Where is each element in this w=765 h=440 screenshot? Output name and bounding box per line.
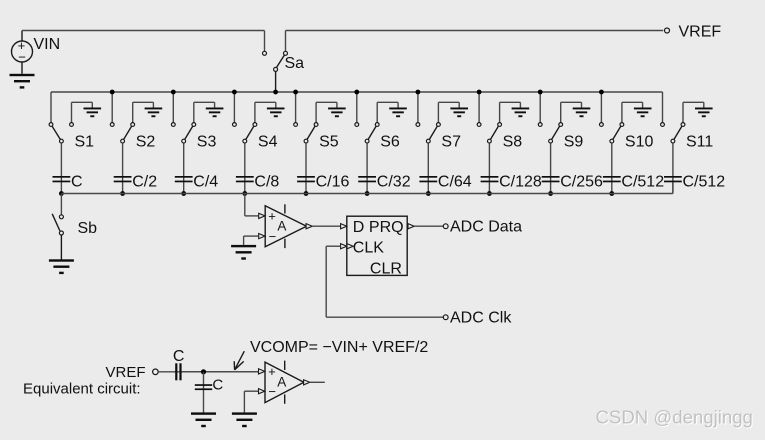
junction bottom bus C6: [365, 191, 370, 196]
svg-text:Sb: Sb: [78, 220, 98, 237]
op-amp comparator A (equivalent): [265, 361, 304, 404]
svg-text:VIN: VIN: [34, 36, 61, 53]
svg-text:A: A: [277, 375, 286, 390]
svg-text:C/8: C/8: [254, 174, 279, 191]
capacitor C/128 (cell 8): [481, 176, 499, 182]
capacitor C series: [175, 363, 181, 380]
wire S6 pole to C: [366, 143, 368, 193]
flip-flop box U2: [347, 216, 407, 275]
svg-text:S10: S10: [625, 134, 654, 151]
wire VIN to Sa: [22, 31, 265, 52]
svg-text:ADC Data: ADC Data: [450, 218, 522, 235]
junction bus S9: [538, 90, 543, 95]
wire ground branch S7: [438, 102, 459, 122]
svg-text:A: A: [277, 219, 286, 234]
arrowhead - input: [259, 234, 265, 239]
ground (cell 8): [512, 108, 530, 118]
ground (cell 7): [450, 108, 468, 118]
switch S1: [49, 123, 73, 143]
svg-text:Equivalent circuit:: Equivalent circuit:: [23, 380, 141, 397]
arrowhead Q output: [408, 224, 414, 229]
wire bus drop S3: [172, 92, 174, 122]
junction bottom bus C1: [59, 191, 64, 196]
capacitor C/32 (cell 6): [358, 176, 376, 182]
switch S7: [416, 123, 440, 143]
junction bus S4: [232, 90, 237, 95]
junction bus S5: [293, 90, 298, 95]
junction Sa-bus: [273, 90, 278, 95]
junction bus S10: [599, 90, 604, 95]
junction bus S3: [171, 90, 176, 95]
wire C series to comparator: [182, 371, 259, 373]
wire Q to ADC Data: [414, 225, 443, 227]
wire ground branch S4: [255, 102, 276, 122]
arrowhead - input (equivalent): [259, 389, 265, 394]
svg-text:S5: S5: [319, 134, 339, 151]
wire Sa to VREF: [286, 31, 664, 52]
svg-text:S1: S1: [75, 134, 95, 151]
svg-text:S11: S11: [686, 134, 713, 151]
svg-text:C/128: C/128: [499, 174, 542, 191]
switch S5: [294, 123, 318, 143]
svg-text:D: D: [353, 219, 365, 236]
arrowhead comparator output: [306, 224, 312, 229]
wire Sb to ground: [60, 235, 62, 259]
svg-text:+: +: [268, 209, 276, 224]
capacitor C/2 (cell 2): [114, 176, 132, 182]
junction bottom bus C7: [426, 191, 431, 196]
op-amp comparator A (U1): [265, 204, 306, 248]
ground (cell 6): [389, 108, 407, 118]
svg-text:S9: S9: [564, 134, 584, 151]
svg-text:C/256: C/256: [560, 174, 603, 191]
junction bottom bus C2: [120, 191, 125, 196]
ground (C shunt): [191, 412, 216, 427]
wire ground branch S2: [133, 102, 154, 122]
arrowhead + input: [259, 213, 265, 218]
wire S5 pole to C: [305, 143, 307, 193]
wire S9 pole to C: [550, 143, 552, 193]
wire S8 pole to C: [488, 143, 490, 193]
wire ground branch S8: [500, 102, 521, 122]
svg-text:S7: S7: [441, 134, 461, 151]
capacitor C/256 (cell 9): [542, 176, 560, 182]
switch S3: [171, 123, 195, 143]
capacitor C/16 (cell 5): [297, 176, 315, 182]
wire bus drop S8: [478, 92, 480, 122]
switch Sb: [52, 214, 63, 235]
voltage source VIN: [12, 31, 33, 74]
wire output stub: [310, 381, 325, 383]
wire ground branch S3: [194, 102, 215, 122]
capacitor C/512 (cell 11): [664, 176, 682, 182]
svg-text:C/512: C/512: [683, 174, 726, 191]
svg-text:CLR: CLR: [370, 260, 402, 277]
capacitor C/4 (cell 3): [175, 176, 193, 182]
junction bottom bus C3: [181, 191, 186, 196]
switch S9: [538, 123, 562, 143]
svg-text:C: C: [71, 174, 83, 191]
annotation arrow to VCOMP node: [234, 351, 244, 370]
terminal ADC Clk: [443, 315, 448, 320]
wire bus drop S4: [233, 92, 235, 122]
wire bus drop S2: [111, 92, 113, 122]
junction bus S7: [416, 90, 421, 95]
junction bottom bus C9: [548, 191, 553, 196]
svg-text:CLK: CLK: [353, 239, 384, 256]
svg-text:−: −: [269, 229, 277, 244]
capacitor C/64 (cell 7): [419, 176, 437, 182]
wire ground branch S11: [683, 102, 704, 122]
wire bus drop S6: [356, 92, 358, 122]
wire S4 pole to C: [244, 143, 246, 193]
svg-text:S4: S4: [258, 134, 278, 151]
wire S2 pole to C: [122, 143, 124, 193]
arrowhead + input (equivalent): [259, 369, 265, 374]
svg-text:C: C: [173, 348, 185, 365]
ground (comparator - input): [231, 245, 256, 260]
svg-text:VREF: VREF: [679, 23, 722, 40]
wire S7 pole to C: [427, 143, 429, 193]
svg-text:CSDN @dengjingg: CSDN @dengjingg: [596, 407, 753, 428]
arrowhead D input: [341, 224, 347, 229]
wire ground branch S6: [377, 102, 398, 122]
switch Sa: [263, 51, 288, 92]
svg-text:−: −: [268, 384, 276, 399]
svg-text:S2: S2: [136, 134, 156, 151]
capacitor C shunt: [195, 384, 212, 390]
junction bottom bus C4: [242, 191, 247, 196]
junction bottom bus C10: [609, 191, 614, 196]
junction bus S2: [110, 90, 115, 95]
switch S11: [661, 123, 685, 143]
switch S2: [110, 123, 134, 143]
wire bus drop S5: [295, 92, 297, 122]
wire node to C shunt: [203, 372, 205, 413]
svg-text:C/2: C/2: [132, 174, 157, 191]
capacitor C (cell 1): [53, 176, 71, 182]
wire ground branch S1: [72, 102, 93, 122]
svg-text:C: C: [212, 377, 223, 394]
wire bus to Sb: [60, 194, 62, 215]
ground (- input equivalent): [232, 412, 257, 427]
wire S3 pole to C: [183, 143, 185, 193]
svg-text:C/64: C/64: [438, 174, 472, 191]
wire bottom bus: [61, 182, 673, 193]
wire S11 pole to C: [672, 143, 674, 193]
wire comparator - input: [244, 236, 259, 245]
svg-text:S8: S8: [503, 134, 523, 151]
svg-text:C/512: C/512: [621, 174, 664, 191]
wire bus drop S7: [417, 92, 419, 122]
svg-text:S6: S6: [380, 134, 400, 151]
wire S1 pole to C: [60, 143, 62, 193]
wire top bus: [51, 92, 663, 122]
capacitor C/8 (cell 4): [236, 176, 254, 182]
svg-text:+: +: [268, 364, 276, 379]
ground (cell 2): [145, 108, 163, 118]
ground (cell 9): [573, 108, 591, 118]
junction bottom bus C8: [487, 191, 492, 196]
wire bus to comparator + input: [245, 194, 258, 216]
svg-text:VREF: VREF: [106, 364, 146, 381]
ground (Sb): [49, 259, 74, 274]
ground (cell 11): [695, 108, 713, 118]
wire terminal to C series: [158, 371, 258, 373]
svg-text:PRQ: PRQ: [369, 219, 404, 236]
wire bus drop S10: [600, 92, 602, 122]
clock chevron: [347, 244, 353, 249]
wire ADC Clk to CLK: [326, 246, 443, 317]
junction bus S6: [354, 90, 359, 95]
ground (cell 4): [267, 108, 285, 118]
svg-text:VCOMP= −VIN+ VREF/2: VCOMP= −VIN+ VREF/2: [250, 339, 428, 356]
svg-text:S3: S3: [197, 134, 217, 151]
terminal ADC Data: [443, 224, 448, 229]
junction bottom bus C5: [304, 191, 309, 196]
svg-text:C/32: C/32: [377, 174, 411, 191]
wire ground branch S9: [561, 102, 582, 122]
wire bus drop S9: [539, 92, 541, 122]
terminal VREF (equivalent): [153, 369, 159, 375]
wire S10 pole to C: [611, 143, 613, 193]
ground (cell 3): [206, 108, 224, 118]
svg-text:C/4: C/4: [193, 174, 218, 191]
svg-text:C/16: C/16: [316, 174, 350, 191]
wire ground branch S5: [316, 102, 337, 122]
node junction: [201, 369, 206, 374]
ground (cell 1): [84, 108, 102, 118]
svg-text:Sa: Sa: [285, 55, 305, 72]
ground (cell 10): [634, 108, 652, 118]
ground (cell 5): [328, 108, 346, 118]
wire - input (equivalent): [244, 391, 258, 412]
svg-text:ADC Clk: ADC Clk: [450, 309, 512, 326]
switch S10: [600, 123, 624, 143]
switch S8: [477, 123, 501, 143]
junction bus S8: [477, 90, 482, 95]
arrowhead CLK input: [341, 244, 347, 249]
capacitor C/512 (cell 10): [603, 176, 621, 182]
terminal VREF: [665, 28, 670, 33]
wire ground branch S10: [622, 102, 643, 122]
switch S4: [233, 123, 257, 143]
arrowhead output (equivalent): [304, 380, 310, 385]
ground (VIN): [10, 74, 35, 89]
wire comparator to D input: [312, 225, 340, 227]
switch S6: [355, 123, 379, 143]
